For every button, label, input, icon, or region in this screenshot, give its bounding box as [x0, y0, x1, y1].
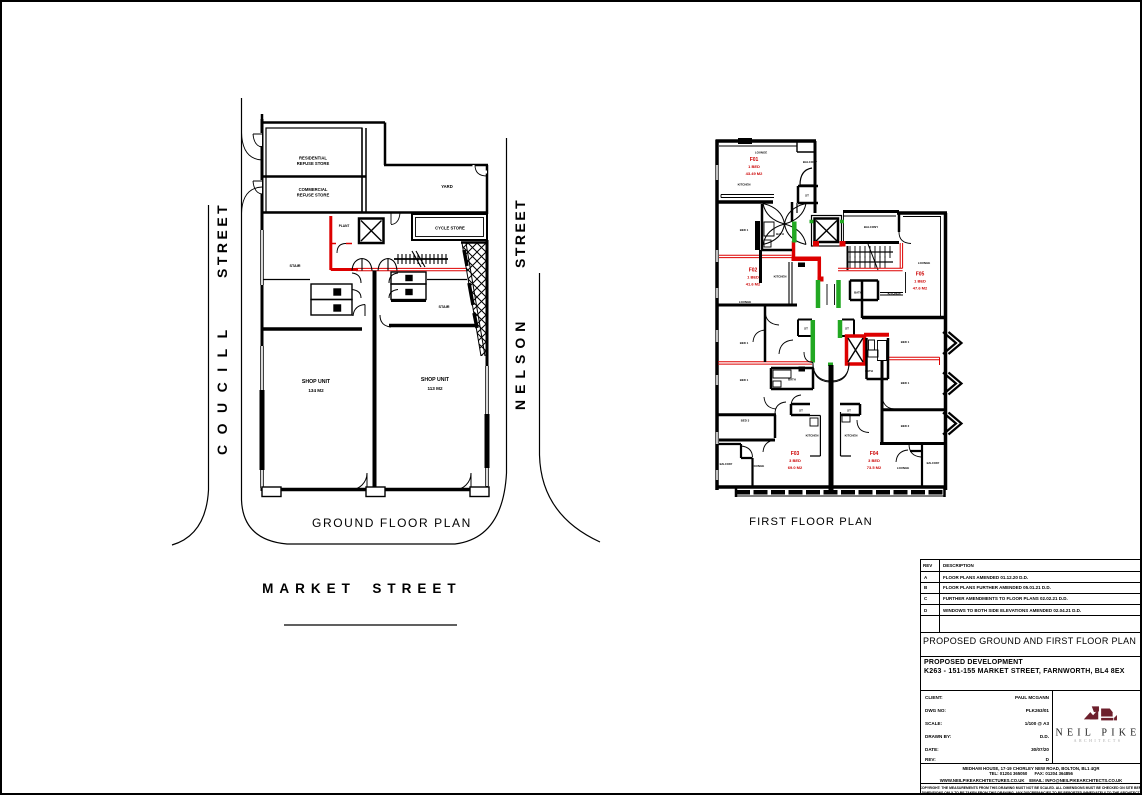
kitchen counter F01	[721, 195, 774, 198]
svg-text:KITCHEN: KITCHEN	[738, 183, 751, 187]
market street south kerb	[284, 624, 457, 626]
rev col divider	[939, 559, 940, 632]
wall BED2 bottom right	[880, 442, 947, 445]
bottom wall	[262, 488, 487, 492]
outer right wall	[944, 213, 948, 490]
wall BED1 left mid right	[764, 305, 767, 362]
green walls mid	[818, 280, 839, 308]
lounge F03 door arc	[741, 446, 753, 457]
svg-text:BALCONY: BALCONY	[720, 462, 733, 466]
F05 kitchen divider	[861, 280, 864, 318]
door arc F02 entry	[765, 310, 793, 354]
F01 right wall upper	[814, 141, 817, 213]
wall F02 hall left	[759, 250, 762, 283]
svg-text:3 BED: 3 BED	[868, 458, 880, 463]
door arcs centre low	[813, 363, 849, 383]
wall BED1/BED2 right	[883, 408, 947, 411]
GFPLAN	[0, 0, 962, 528]
right stair room top wall	[391, 299, 426, 302]
svg-text:LOUNGE: LOUNGE	[739, 300, 751, 304]
red line horizontal thin double	[356, 268, 466, 270]
svg-text:SHOP UNIT: SHOP UNIT	[421, 377, 450, 383]
svg-text:BED 1: BED 1	[740, 228, 749, 232]
lift shaft FF	[812, 216, 842, 247]
top wall refuse block	[261, 121, 385, 124]
disclaimer lines	[920, 786, 1142, 790]
wedge dark blobs	[464, 250, 477, 328]
refuse right double wall	[362, 128, 366, 212]
plant red wall vertical	[329, 216, 332, 270]
party wall between shops	[373, 271, 377, 490]
outer left wall	[715, 140, 719, 490]
balcony right wall + F05 door arc	[898, 213, 901, 232]
svg-text:ST: ST	[804, 327, 808, 331]
lobby cell door arcs	[352, 273, 361, 298]
svg-text:STREET: STREET	[512, 198, 528, 268]
svg-text:134 M2: 134 M2	[308, 388, 324, 393]
bottom wall FF	[716, 485, 947, 489]
svg-text:F01: F01	[750, 157, 759, 163]
yard top wall	[384, 164, 488, 167]
building right wall	[486, 240, 489, 491]
svg-text:ST: ST	[799, 409, 803, 413]
svg-text:COUCILL: COUCILL	[214, 319, 230, 455]
client/logo divider	[1052, 690, 1053, 763]
balcony F01	[797, 141, 815, 152]
street kerb Nelson St outer	[540, 273, 601, 542]
left wall window gaps	[715, 165, 719, 480]
cupboards left cluster	[311, 284, 352, 315]
bath F03	[771, 368, 813, 389]
lobby bottom doors	[353, 305, 365, 317]
address lines	[920, 766, 1142, 771]
svg-text:41.6 M2: 41.6 M2	[746, 282, 761, 287]
disclaimer section top	[920, 783, 1142, 784]
logo mark	[1054, 692, 1142, 763]
ST closets mid	[798, 320, 812, 337]
svg-text:BED 3: BED 3	[741, 419, 750, 423]
svg-text:SHOP UNIT: SHOP UNIT	[302, 379, 331, 385]
stairs GF treads	[394, 251, 448, 267]
dev section bottom	[920, 690, 1142, 691]
street kerb Coucill St outer	[172, 205, 209, 545]
refuse stores inner box	[266, 128, 362, 212]
svg-text:BED 2: BED 2	[901, 424, 910, 428]
main floor top wall	[262, 211, 487, 214]
F05 bottom wall	[862, 316, 947, 320]
F05 lounge divider	[905, 272, 907, 293]
red lift box	[847, 336, 865, 364]
left stair room bottom thick	[262, 327, 362, 331]
client rows	[925, 695, 943, 700]
svg-text:CYCLE STORE: CYCLE STORE	[435, 226, 465, 231]
door leaf arcs left refuse doors	[253, 134, 262, 147]
svg-text:3 BED: 3 BED	[789, 458, 801, 463]
svg-text:STAIR: STAIR	[289, 264, 300, 268]
left wall window thin sections	[261, 230, 264, 488]
door arcs bedrooms left	[753, 330, 775, 452]
door gaps left wall	[258, 133, 262, 194]
cupboards right cluster	[391, 272, 426, 300]
ST closet F04	[840, 404, 860, 415]
hall door arcs F01	[763, 204, 785, 225]
bottom wall door openings	[350, 473, 367, 490]
svg-text:YARD: YARD	[441, 184, 452, 189]
corridor door arc right of lift	[391, 213, 400, 225]
svg-text:KITCHEN: KITCHEN	[774, 275, 787, 279]
wall F02 lounge bottom	[717, 304, 797, 307]
door arcs F03 F04 entries	[813, 363, 849, 381]
yard east step down	[384, 123, 387, 166]
top wall pier	[738, 138, 752, 144]
svg-text:LOUNGE: LOUNGE	[752, 464, 764, 468]
cycle store inner box	[416, 218, 484, 237]
svg-text:ST: ST	[847, 409, 851, 413]
svg-text:F03: F03	[791, 451, 800, 457]
inner face lines right/top	[903, 217, 941, 318]
ST closet top	[798, 186, 818, 203]
svg-text:STREET: STREET	[372, 581, 461, 596]
door arc balcony F03	[0, 0, 1, 1]
svg-text:RESIDENTIAL: RESIDENTIAL	[299, 156, 327, 161]
svg-text:PLANT: PLANT	[339, 224, 350, 228]
green walls lower mid	[811, 320, 816, 363]
red thin line across F02	[718, 255, 792, 257]
svg-text:REFUSE STORE: REFUSE STORE	[297, 193, 330, 198]
wall hall right F01	[791, 202, 794, 221]
wedge edges	[461, 241, 487, 244]
red thin line right	[887, 357, 940, 365]
corridor door leaves	[827, 284, 835, 305]
right stair room bottom thick	[389, 324, 477, 328]
big street door arcs	[242, 132, 263, 214]
plant red wall top stub	[331, 243, 352, 245]
bed rooms left vertical right side	[881, 360, 884, 444]
plant door arc	[337, 244, 346, 254]
bath left pier	[755, 221, 760, 250]
lift shaft GF	[359, 219, 384, 244]
top wall inner face	[719, 145, 797, 147]
svg-text:STREET: STREET	[214, 202, 230, 278]
svg-text:ST: ST	[805, 194, 809, 198]
svg-text:BALCONY: BALCONY	[864, 225, 878, 229]
address section top	[920, 763, 1142, 764]
logo shape right	[1101, 709, 1113, 717]
svg-text:69.0 M2: 69.0 M2	[788, 465, 803, 470]
svg-text:STAIR: STAIR	[438, 305, 449, 309]
BED3 right wall	[774, 415, 777, 438]
svg-text:1 BED: 1 BED	[748, 164, 760, 169]
svg-text:NELSON: NELSON	[512, 316, 528, 410]
svg-text:MARKET: MARKET	[262, 581, 356, 596]
ST closet F03	[791, 404, 810, 415]
red wall right of lift	[864, 333, 889, 337]
stairs red outline	[838, 243, 903, 271]
svg-text:LOUNGE: LOUNGE	[897, 466, 909, 470]
upper landing bottom line	[262, 279, 467, 281]
title section border	[920, 632, 1142, 657]
red wall centre upper	[792, 241, 796, 257]
left wall pier thick	[260, 390, 265, 470]
green wall centre upper	[792, 222, 797, 243]
svg-text:NEIL PIKE: NEIL PIKE	[1056, 728, 1141, 739]
svg-text:BED 1: BED 1	[740, 341, 749, 345]
svg-text:F04: F04	[870, 451, 879, 457]
F05 top wall	[897, 211, 947, 215]
svg-text:1 BED: 1 BED	[747, 275, 759, 280]
red blocks at lift corners	[813, 241, 819, 247]
red thin line left	[718, 362, 812, 364]
main title	[923, 636, 1141, 646]
right wall pier thick	[485, 414, 490, 468]
bath F05	[850, 281, 878, 301]
top-left wall tee	[261, 114, 264, 130]
outer top wall	[716, 139, 817, 143]
door arc balcony F04	[896, 450, 908, 462]
outer left wall	[261, 119, 264, 491]
svg-text:F02: F02	[749, 268, 758, 274]
logo triangle left	[1084, 706, 1117, 720]
balcony F04	[910, 444, 922, 489]
yard right wall	[486, 165, 489, 214]
green tick party top	[828, 363, 833, 367]
svg-text:73.5 M2: 73.5 M2	[867, 465, 882, 470]
balcony rail bottom	[736, 488, 945, 497]
right wall window thin sections	[486, 366, 489, 486]
jamb right of hall	[796, 203, 798, 213]
svg-text:BATH: BATH	[776, 232, 784, 236]
street kerb Coucill St inner	[242, 98, 507, 544]
svg-text:FIRST FLOOR PLAN: FIRST FLOOR PLAN	[749, 516, 873, 528]
svg-text:BED 1: BED 1	[901, 381, 910, 385]
kitchen partition F02	[789, 262, 792, 304]
svg-text:BED 1: BED 1	[740, 378, 749, 382]
door arcs bedrooms right	[857, 396, 894, 433]
window chevrons right	[943, 332, 962, 435]
svg-text:1 BED: 1 BED	[914, 279, 926, 284]
development lines	[924, 659, 1023, 666]
kitchen fixtures F03 F04	[810, 418, 818, 426]
bath F04	[867, 338, 889, 379]
rev table texts	[923, 563, 932, 568]
svg-text:COMMERCIAL: COMMERCIAL	[299, 187, 328, 192]
svg-text:KITCHEN: KITCHEN	[845, 434, 858, 438]
kitchen thin partitions F03 F04	[809, 412, 852, 456]
street kerb Nelson St inner	[506, 138, 508, 473]
red wall horizontal thick	[331, 268, 358, 271]
svg-text:113 M2: 113 M2	[427, 386, 443, 391]
title block outer	[920, 559, 1142, 795]
svg-text:ST: ST	[845, 327, 849, 331]
svg-text:ARCHITECTS: ARCHITECTS	[1074, 738, 1123, 743]
cycle store outer box	[412, 214, 487, 240]
svg-text:BED 1: BED 1	[901, 340, 910, 344]
door arc BED3	[764, 395, 801, 414]
svg-text:F05: F05	[916, 272, 925, 278]
svg-text:47.6 M2: 47.6 M2	[913, 286, 928, 291]
party wall F03/F04	[829, 365, 834, 490]
balcony centre top walls	[840, 212, 899, 243]
svg-text:LOUNGE: LOUNGE	[755, 151, 767, 155]
svg-text:BATH: BATH	[854, 291, 862, 295]
svg-text:REFUSE STORE: REFUSE STORE	[297, 161, 330, 166]
stairs FF	[847, 244, 893, 270]
yard gate notch	[474, 165, 487, 172]
F01 bottom wall	[717, 200, 773, 204]
refuse divider wall	[262, 175, 366, 178]
bath F01 centre box	[762, 204, 792, 250]
svg-text:BALCONY: BALCONY	[803, 160, 817, 164]
meter box F02	[798, 263, 805, 268]
svg-text:43.49 M2: 43.49 M2	[746, 171, 763, 176]
rev table row lines	[920, 571, 1142, 572]
wall BED3 bottom left	[717, 439, 775, 442]
svg-text:KITCHEN: KITCHEN	[806, 434, 819, 438]
svg-text:BATH: BATH	[788, 378, 796, 382]
wall BED3 top left	[717, 413, 776, 416]
balcony F03 top wall	[717, 443, 741, 445]
svg-text:GROUND FLOOR PLAN: GROUND FLOOR PLAN	[312, 516, 472, 530]
balcony F03 step walls	[741, 444, 753, 487]
svg-text:BALCONY: BALCONY	[927, 461, 940, 465]
svg-text:LOUNGE: LOUNGE	[918, 261, 930, 265]
svg-text:BATH: BATH	[865, 369, 873, 373]
meter box F03	[799, 367, 806, 372]
lobby door arcs upper pair	[352, 259, 372, 271]
wardrobe marks F04 bath	[868, 350, 878, 357]
thresholds	[262, 487, 281, 497]
